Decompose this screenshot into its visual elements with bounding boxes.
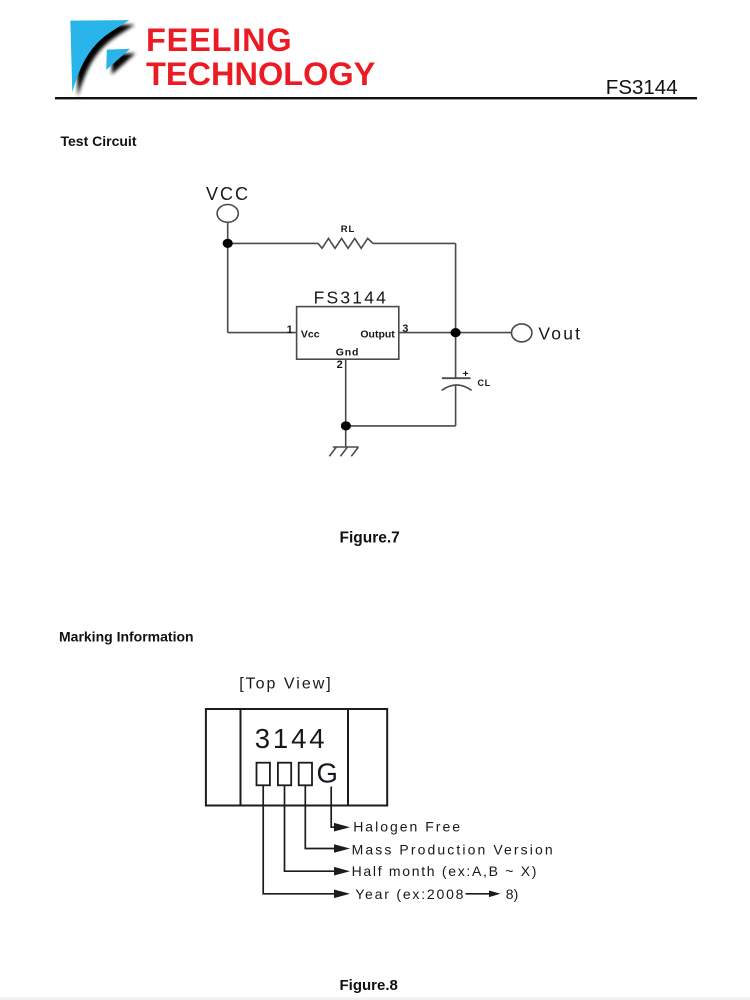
svg-text:FS3144: FS3144 <box>314 288 389 308</box>
svg-text:Halogen Free: Halogen Free <box>353 819 462 835</box>
svg-text:Vcc: Vcc <box>301 329 320 341</box>
svg-text:TECHNOLOGY: TECHNOLOGY <box>146 56 376 92</box>
svg-text:G: G <box>317 758 338 789</box>
svg-text:CL: CL <box>478 378 491 388</box>
svg-text:Output: Output <box>360 328 395 340</box>
svg-text:RL: RL <box>341 224 356 235</box>
svg-text:Figure.7: Figure.7 <box>340 529 400 546</box>
svg-text:+: + <box>463 368 469 380</box>
svg-text:VCC: VCC <box>206 184 250 204</box>
svg-text:Figure.8: Figure.8 <box>340 977 398 994</box>
svg-text:FS3144: FS3144 <box>606 76 678 99</box>
svg-text:Vout: Vout <box>538 323 582 343</box>
svg-text:Year (ex:2008: Year (ex:2008 <box>355 886 465 902</box>
svg-text:Marking Information: Marking Information <box>59 629 194 645</box>
svg-text:[Top View]: [Top View] <box>239 676 333 693</box>
svg-text:1: 1 <box>287 324 293 336</box>
svg-text:FEELING: FEELING <box>146 22 292 58</box>
svg-text:3144: 3144 <box>255 723 328 754</box>
svg-text:Mass Production Version: Mass Production Version <box>352 841 555 857</box>
svg-text:Test Circuit: Test Circuit <box>61 133 137 149</box>
svg-text:3: 3 <box>402 323 408 335</box>
svg-text:Gnd: Gnd <box>336 347 359 359</box>
svg-text:2: 2 <box>337 359 343 371</box>
svg-text:Half month (ex:A,B ~ X): Half month (ex:A,B ~ X) <box>352 863 539 879</box>
svg-text:8): 8) <box>506 886 518 902</box>
